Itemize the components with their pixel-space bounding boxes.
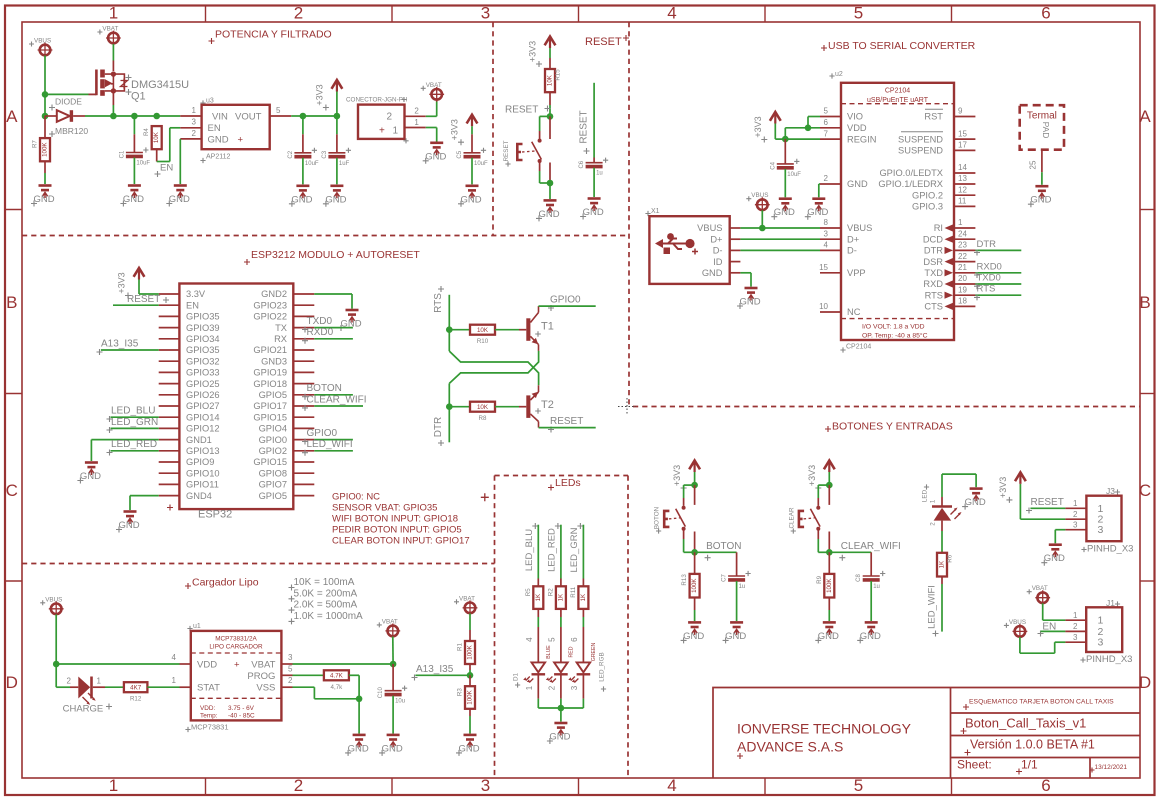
wire J3 pin3 to GND [1055, 529, 1065, 531]
section title USB TO SERIAL CONVERTER [821, 45, 827, 51]
svg-text:1K: 1K [535, 593, 542, 601]
wire VBUS supply to net [761, 210, 763, 228]
svg-text:BOTON: BOTON [654, 506, 661, 529]
svg-text:VBUS: VBUS [45, 596, 62, 603]
svg-text:5: 5 [854, 4, 863, 23]
svg-text:100K: 100K [42, 142, 49, 157]
svg-text:I/O VOLT: 1.8 a VDD: I/O VOLT: 1.8 a VDD [862, 324, 925, 331]
label RXD0 [302, 338, 308, 344]
ground GND U1 [345, 735, 369, 756]
svg-text:1K: 1K [580, 593, 587, 601]
svg-text:10K = 100mA: 10K = 100mA [294, 577, 355, 588]
svg-text:LED_WIFI: LED_WIFI [927, 585, 938, 629]
supply VBAT P3 [421, 82, 444, 102]
node VBUS-gate [42, 91, 49, 98]
node REGIN [782, 136, 789, 143]
svg-text:GND3: GND3 [261, 356, 287, 366]
wire RTS out [975, 294, 1021, 296]
svg-text:VSS: VSS [256, 683, 275, 694]
column ticks [205, 6, 207, 23]
label EN J1 [1038, 631, 1044, 637]
svg-text:RXD0: RXD0 [307, 327, 334, 338]
svg-text:RST: RST [924, 112, 943, 122]
svg-text:GPIO32: GPIO32 [186, 356, 220, 366]
svg-text:GPIO2: GPIO2 [259, 446, 287, 456]
supply +3V3 arrow BOTON [672, 461, 700, 492]
switch BOTON wiring [684, 484, 695, 486]
switch S2 symbol [517, 139, 541, 163]
svg-text:4: 4 [667, 776, 676, 795]
label CLEAR_WIFI [302, 405, 308, 411]
title block version [965, 750, 971, 756]
svg-text:19: 19 [958, 285, 967, 294]
svg-text:GPIO.1/LEDRX: GPIO.1/LEDRX [878, 179, 943, 189]
svg-text:uSB/PuEnTE uART: uSB/PuEnTE uART [867, 97, 929, 104]
svg-text:GPIO19: GPIO19 [253, 368, 287, 378]
pin 25 thermal [1041, 150, 1043, 173]
svg-text:GPIO15: GPIO15 [253, 457, 287, 467]
svg-text:CLEAR BOTON INPUT: GPIO17: CLEAR BOTON INPUT: GPIO17 [332, 535, 470, 546]
svg-text:ESP3212 MODULO + AUTORESET: ESP3212 MODULO + AUTORESET [251, 249, 420, 261]
LED D3 [932, 507, 962, 521]
svg-text:GPIO34: GPIO34 [186, 334, 220, 344]
svg-text:2: 2 [294, 4, 303, 23]
svg-text:5.0K = 200mA: 5.0K = 200mA [294, 588, 358, 599]
wire A13_I35 [101, 349, 159, 351]
transistor T2 [526, 385, 538, 427]
wire VBUS X1 to CP2104 [740, 227, 820, 229]
regulator U3 AP2112 [200, 100, 205, 105]
svg-text:Temp:: Temp: [200, 713, 218, 720]
svg-text:23: 23 [958, 241, 967, 250]
svg-text:2: 2 [824, 174, 829, 183]
pins CP2104 right [954, 116, 975, 118]
svg-text:VBUS: VBUS [697, 223, 722, 233]
svg-text:PINHD_X3: PINHD_X3 [1087, 544, 1133, 555]
pin stubs U3 [180, 115, 201, 117]
svg-text:10K: 10K [477, 327, 489, 334]
svg-text:R7: R7 [32, 140, 39, 148]
svg-text:ESP32: ESP32 [198, 509, 232, 521]
resistor R11 4.7k [324, 670, 349, 691]
node C2 [300, 113, 307, 120]
svg-text:2: 2 [930, 522, 937, 526]
svg-text:VBAT: VBAT [459, 595, 475, 602]
wire VOUT 3V3 rail [291, 115, 303, 117]
svg-text:C8: C8 [856, 574, 862, 582]
svg-text:R4: R4 [143, 128, 150, 136]
wire 3V3 to J3 pin2 [1019, 484, 1021, 519]
svg-text:3: 3 [570, 685, 579, 690]
label RESET to EN [163, 297, 169, 303]
svg-text:100K: 100K [691, 578, 698, 593]
svg-text:RX: RX [274, 334, 287, 344]
svg-text:X1: X1 [651, 208, 660, 215]
svg-text:10K: 10K [477, 404, 489, 411]
node switch-GND [547, 180, 554, 187]
wire switch to GND [549, 183, 551, 199]
svg-text:C6: C6 [579, 160, 585, 168]
svg-text:D+: D+ [847, 234, 859, 244]
resistor R8 10K [449, 406, 470, 408]
svg-text:DIODE: DIODE [55, 97, 82, 107]
switch S2 RESET wiring [540, 115, 550, 117]
svg-text:1: 1 [393, 125, 399, 136]
wire gate [45, 93, 89, 95]
wire TXD0 [314, 327, 353, 329]
svg-text:3: 3 [288, 653, 293, 662]
resistor R12 [124, 682, 147, 703]
svg-text:GPIO5: GPIO5 [259, 491, 287, 501]
node VDD [53, 661, 60, 668]
svg-text:4: 4 [824, 241, 829, 250]
resistor R3 100K [469, 675, 471, 686]
svg-text:RESET: RESET [503, 140, 510, 161]
svg-text:15: 15 [958, 129, 967, 138]
wire DTR vertical [448, 383, 450, 442]
svg-text:LED_GRN: LED_GRN [569, 527, 580, 572]
wire pin2 to VBAT [426, 115, 437, 117]
svg-text:18: 18 [958, 297, 967, 306]
svg-text:LED_GRN: LED_GRN [111, 417, 158, 428]
capacitor C1 [133, 116, 135, 134]
node DTR-R8 [446, 403, 453, 410]
svg-text:B: B [1139, 293, 1150, 312]
wire LED_GRN [582, 525, 584, 579]
svg-text:RXD0: RXD0 [977, 261, 1002, 272]
wire R8 to T2 base [495, 406, 519, 408]
svg-text:CLEAR_WIFI: CLEAR_WIFI [307, 394, 367, 405]
svg-text:GPIO17: GPIO17 [253, 401, 287, 411]
svg-text:ADVANCE S.A.S: ADVANCE S.A.S [737, 739, 843, 755]
wire CLEAR_WIFI [314, 405, 363, 407]
svg-text:DTR: DTR [924, 246, 943, 256]
svg-text:GPIO26: GPIO26 [186, 390, 220, 400]
ground GND J2 [423, 143, 447, 164]
svg-text:MCP73831/2A: MCP73831/2A [215, 635, 257, 642]
svg-text:VBUS: VBUS [847, 223, 872, 233]
svg-text:RTS: RTS [433, 293, 444, 313]
connector X1 USB [645, 211, 650, 216]
svg-text:R8: R8 [479, 415, 487, 422]
svg-text:GPIO.2: GPIO.2 [912, 190, 943, 200]
svg-text:VBAT: VBAT [102, 26, 118, 33]
LED LED_BLU [523, 662, 545, 682]
resistor R10 10K [449, 329, 470, 331]
svg-text:1u: 1u [873, 584, 880, 590]
svg-text:3: 3 [481, 776, 490, 795]
svg-text:3: 3 [824, 229, 829, 238]
wire GND2 [314, 293, 352, 295]
svg-text:MCP73831: MCP73831 [191, 722, 229, 731]
wire VBUS to gate node [44, 56, 46, 95]
svg-text:R12: R12 [130, 696, 142, 703]
wire VDD to REGIN [784, 128, 786, 139]
wire VSS to GND [358, 699, 360, 734]
ground GND S2 [536, 200, 560, 221]
svg-text:4: 4 [667, 4, 676, 23]
svg-text:WIFI BOTON INPUT: GPIO18: WIFI BOTON INPUT: GPIO18 [332, 513, 458, 524]
wire GPIO0 from T1 collector [539, 305, 596, 307]
svg-text:100K: 100K [826, 578, 833, 593]
svg-text:+: + [238, 135, 244, 146]
svg-text:2: 2 [67, 677, 72, 686]
svg-text:SENSOR VBAT: GPIO35: SENSOR VBAT: GPIO35 [332, 502, 437, 513]
label CLEAR_WIFI [839, 555, 845, 561]
svg-text:A13_I35: A13_I35 [416, 664, 454, 675]
svg-text:CLEAR: CLEAR [788, 507, 795, 528]
svg-text:GPIO0: GPIO0 [307, 428, 338, 439]
svg-text:+3V3: +3V3 [753, 116, 763, 137]
svg-text:2: 2 [1073, 622, 1078, 631]
svg-text:CHARGE: CHARGE [63, 704, 104, 715]
svg-text:GPIO15: GPIO15 [253, 412, 287, 422]
wire R10 to T1 base [495, 329, 519, 331]
svg-text:4K7: 4K7 [130, 685, 142, 692]
svg-text:6: 6 [824, 118, 829, 127]
LED D1 CHARGE [70, 686, 78, 688]
wire pin1 to GND [426, 127, 437, 129]
wire VBUS down [55, 614, 57, 664]
svg-text:VBUS: VBUS [751, 192, 768, 199]
svg-text:3: 3 [1073, 633, 1078, 642]
label BOTON [705, 555, 711, 561]
svg-text:LED_BLU: LED_BLU [524, 529, 535, 571]
wire REGIN [775, 138, 820, 140]
svg-text:21: 21 [958, 263, 967, 272]
svg-text:10uF: 10uF [474, 161, 488, 167]
label TXD0 net [974, 283, 980, 289]
capacitor C5 [457, 148, 488, 167]
wire 3V3 stem USB [774, 124, 776, 140]
svg-text:GPIO22: GPIO22 [253, 312, 287, 322]
svg-text:BOTON: BOTON [706, 541, 741, 552]
wire VBUS down to diode [44, 94, 46, 116]
svg-text:VBAT: VBAT [1032, 585, 1048, 592]
svg-text:u3: u3 [206, 97, 214, 104]
svg-text:DTR: DTR [977, 239, 997, 250]
label GPIO0 [302, 439, 308, 445]
svg-text:PEDIR BOTON INPUT: GPIO5: PEDIR BOTON INPUT: GPIO5 [332, 524, 462, 535]
svg-text:RTS: RTS [977, 284, 996, 295]
svg-text:VIO: VIO [847, 112, 863, 122]
wire common to GND [560, 708, 562, 722]
wire VBUS to J1 pin3 [1019, 637, 1021, 653]
svg-text:12: 12 [958, 185, 967, 194]
wire 3V3 to pin 3.3V [138, 280, 140, 295]
supply VBUS P1 [29, 38, 52, 58]
svg-text:14: 14 [958, 163, 967, 172]
section title Cargador Lipo [185, 583, 191, 589]
node LED common [558, 705, 565, 712]
svg-text:GPIO4: GPIO4 [259, 424, 287, 434]
svg-text:GND1: GND1 [186, 435, 212, 445]
svg-text:D-: D- [847, 246, 857, 256]
capacitor C7 [736, 552, 738, 576]
svg-text:ID: ID [713, 257, 723, 267]
wire VDD [785, 127, 820, 129]
svg-text:1/1: 1/1 [1021, 758, 1038, 772]
node VBAT-C10 [390, 661, 397, 668]
capacitor C2 [302, 116, 304, 134]
wire 3V3 arrow to rail [336, 92, 338, 117]
svg-text:1: 1 [414, 118, 419, 127]
resistor R11 1k [570, 586, 589, 609]
wire LED_RED [111, 450, 159, 452]
svg-text:Termal: Termal [1027, 110, 1057, 121]
pins CP2104 left [820, 116, 841, 118]
ground GND U3 [166, 186, 190, 207]
svg-text:1: 1 [930, 499, 937, 503]
pin stubs X1 [730, 227, 741, 229]
wire BOTON to cap [695, 551, 737, 553]
svg-text:GND: GND [208, 135, 229, 146]
ground GND thermal [1028, 186, 1052, 207]
ground GND C8 [857, 622, 881, 643]
resistor R15 10K [545, 69, 562, 92]
svg-text:RESET: RESET [505, 104, 538, 115]
svg-text:2: 2 [414, 106, 419, 115]
diode D2 MBR120 [49, 105, 55, 111]
svg-text:u2: u2 [835, 71, 843, 78]
svg-text:2: 2 [386, 111, 392, 122]
svg-text:8: 8 [824, 218, 829, 227]
wire GND1 [91, 439, 158, 441]
switch BOTON symbol [664, 506, 685, 531]
wire EN to J1 pin2 [1041, 630, 1066, 632]
svg-text:1uF: 1uF [339, 161, 350, 167]
svg-text:Q1: Q1 [131, 91, 146, 103]
transistor T1 [526, 306, 538, 351]
svg-text:C3: C3 [322, 150, 328, 158]
svg-text:2: 2 [294, 776, 303, 795]
capacitor C8 [870, 552, 872, 576]
svg-text:3: 3 [1098, 637, 1104, 649]
svg-text:17: 17 [958, 141, 967, 150]
svg-text:+: + [234, 659, 240, 670]
svg-text:GND: GND [847, 179, 868, 189]
svg-text:VBAT: VBAT [426, 82, 442, 89]
wire D+ [740, 238, 820, 240]
wire R11 corner [349, 674, 359, 676]
svg-text:RTS: RTS [925, 290, 943, 300]
ground GND C7 [723, 622, 747, 643]
svg-text:GPIO12: GPIO12 [186, 424, 220, 434]
svg-text:4,7k: 4,7k [331, 684, 344, 691]
svg-text:GPIO11: GPIO11 [186, 480, 219, 490]
title block frame [713, 688, 1140, 779]
svg-text:GREEN: GREEN [591, 643, 597, 662]
svg-text:5: 5 [547, 637, 556, 642]
wire RESET to J3 pin1 [1030, 507, 1065, 509]
node C3 [334, 113, 341, 120]
svg-text:4: 4 [525, 637, 534, 642]
wire LED common bus [538, 707, 583, 709]
resistor R9 pulldown [828, 552, 830, 574]
svg-text:5: 5 [276, 106, 281, 115]
title block board name [961, 728, 967, 734]
svg-text:2: 2 [288, 676, 293, 685]
svg-text:C1: C1 [119, 150, 125, 158]
node R4 [153, 113, 160, 120]
svg-text:GPIO33: GPIO33 [186, 368, 220, 378]
label TXD0 [302, 327, 308, 333]
svg-text:9: 9 [958, 107, 963, 116]
svg-text:1: 1 [172, 676, 177, 685]
wire 3V3 to R15 [549, 48, 551, 58]
svg-text:R9: R9 [816, 575, 823, 583]
svg-text:T2: T2 [541, 399, 554, 411]
connector J1 PINHD_X3 [1115, 601, 1120, 606]
svg-text:VBAT: VBAT [382, 618, 398, 625]
svg-text:1K: 1K [939, 560, 946, 568]
svg-text:A: A [1139, 107, 1151, 126]
svg-text:-40 - 85C: -40 - 85C [228, 713, 255, 720]
connector J3 PINHD_X3 [1115, 489, 1120, 494]
svg-text:RESET: RESET [550, 416, 583, 427]
ground GND LED D3 [962, 489, 986, 510]
wire R12 to STAT [147, 686, 179, 688]
resistor R1 100K [457, 641, 476, 664]
section title POTENCIA Y FILTRADO [209, 38, 215, 44]
wire GND X1 [740, 272, 751, 274]
ground GND R13 [681, 622, 705, 643]
wire GND4 [130, 495, 159, 497]
wire 3V3 to switch CLEAR_WIFI [828, 472, 830, 485]
ground GND C1 [120, 186, 144, 207]
svg-text:2: 2 [192, 129, 197, 138]
wire PROG to R11 [293, 674, 324, 676]
label DTR [974, 250, 980, 256]
svg-text:6: 6 [570, 637, 579, 642]
svg-text:RXD: RXD [923, 279, 943, 289]
svg-text:C: C [6, 481, 18, 500]
title block project name [963, 704, 969, 710]
svg-text:SUSPEND: SUSPEND [898, 134, 943, 144]
svg-text:u1: u1 [193, 623, 201, 630]
svg-text:GND: GND [702, 268, 723, 278]
svg-text:VBUS: VBUS [1009, 619, 1026, 626]
label A13_I35 divider [412, 675, 418, 681]
svg-text:22: 22 [958, 252, 967, 261]
svg-text:B: B [6, 293, 17, 312]
svg-text:1: 1 [1073, 499, 1078, 508]
pin stubs ESP32 right [293, 293, 314, 295]
wire D- [740, 249, 820, 251]
svg-text:GPIO27: GPIO27 [186, 401, 220, 411]
svg-text:USB TO SERIAL CONVERTER: USB TO SERIAL CONVERTER [828, 40, 976, 52]
ground GND1 [77, 463, 101, 484]
ground GND R7 [31, 186, 55, 207]
svg-text:LED_RED: LED_RED [546, 528, 557, 572]
wire DTR out [975, 249, 1021, 251]
capacitor C10 [392, 664, 394, 691]
svg-text:1K: 1K [557, 593, 564, 601]
wire 3V3 to switch BOTON [694, 472, 696, 485]
svg-text:VIN: VIN [212, 112, 228, 123]
svg-text:EN: EN [160, 163, 173, 174]
row ticks [5, 209, 22, 211]
svg-text:VBAT: VBAT [251, 659, 275, 670]
svg-text:LED_BLU: LED_BLU [111, 406, 155, 417]
svg-text:1: 1 [109, 776, 118, 795]
svg-text:R10: R10 [477, 338, 489, 345]
svg-text:MBR120: MBR120 [55, 126, 88, 136]
svg-text:RESET: RESET [1031, 497, 1064, 508]
svg-text:GND4: GND4 [186, 491, 212, 501]
svg-text:1: 1 [192, 106, 197, 115]
wire VDD [56, 663, 179, 665]
